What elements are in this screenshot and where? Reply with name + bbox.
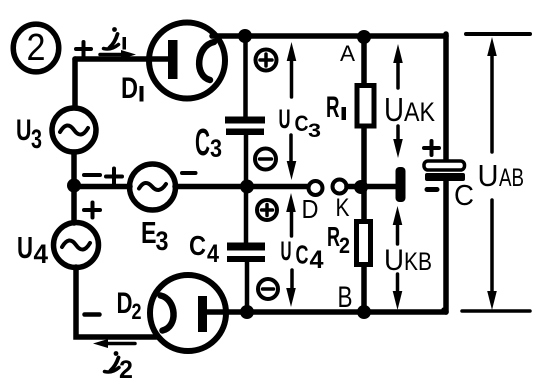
wire E3 to node D	[175, 184, 308, 190]
polarity minus right of E3	[182, 171, 196, 175]
svg-text:R: R	[326, 91, 340, 124]
source U4	[54, 223, 99, 268]
polarity plus above U4	[84, 203, 100, 218]
junction dot top of C3 branch	[238, 29, 252, 43]
resistor R2	[357, 222, 371, 265]
node A junction dot	[357, 30, 371, 44]
wire C4 branch lower	[245, 261, 250, 312]
wire C3 to mid junction to C4	[244, 135, 249, 243]
svg-text:U: U	[16, 114, 32, 147]
svg-text:C: C	[454, 180, 474, 212]
svg-text:C: C	[189, 230, 206, 261]
svg-text:U: U	[281, 236, 292, 266]
svg-text:U: U	[17, 230, 33, 265]
polarity circle minus below C4	[258, 279, 278, 299]
svg-text:B: B	[338, 281, 353, 314]
svg-text:2: 2	[119, 356, 133, 384]
label U4	[17, 230, 48, 269]
label UC4	[281, 236, 324, 274]
junction dot bottom of C branch	[240, 305, 254, 319]
wire R2 to node B	[361, 267, 367, 312]
capacitor C4	[227, 243, 265, 263]
wire input corner down to U3	[72, 59, 78, 107]
source U3	[52, 108, 96, 152]
label R1	[326, 91, 346, 124]
UAB top delimiter	[466, 32, 530, 36]
label D2	[117, 287, 142, 324]
node K open circle	[333, 180, 347, 194]
svg-text:4: 4	[207, 240, 219, 268]
wire input corner to D1 cathode	[75, 56, 168, 62]
bottom wire D2 to bottom-right corner	[205, 309, 446, 315]
minus sign at capacitor C	[427, 187, 437, 192]
node D open circle	[309, 181, 323, 195]
svg-text:AB: AB	[499, 164, 524, 192]
svg-text:4: 4	[34, 239, 49, 269]
wire C3 branch upper	[243, 36, 248, 117]
UAB bottom delimiter	[462, 309, 530, 313]
svg-text:3: 3	[156, 226, 169, 256]
top wire D1 to top-right corner	[212, 33, 446, 39]
svg-text:2: 2	[132, 299, 142, 324]
junction left mid	[67, 179, 81, 193]
label UAK	[384, 91, 435, 128]
node B junction dot	[357, 305, 371, 319]
label C4	[189, 230, 219, 268]
voltage arrow UC4	[286, 193, 296, 307]
label i1	[104, 27, 127, 49]
tube diode D1	[149, 23, 225, 99]
tube diode D2	[150, 275, 226, 351]
svg-text:C: C	[296, 242, 309, 270]
right branch wire lower	[444, 181, 446, 312]
svg-text:3: 3	[210, 135, 222, 163]
right branch wire upper	[443, 34, 449, 161]
svg-text:AK: AK	[404, 97, 435, 127]
svg-text:C: C	[295, 111, 309, 136]
svg-text:D: D	[121, 72, 138, 105]
resistor R1	[357, 86, 374, 127]
wire U4 down and right to D2	[76, 267, 156, 337]
polarity circle minus below C3	[255, 149, 276, 170]
label D1	[121, 72, 144, 105]
svg-text:2: 2	[27, 27, 46, 69]
wire junction down to U4	[71, 186, 77, 223]
polarity minus below U4	[85, 312, 100, 317]
node marker 2 (circled figure number)	[13, 24, 59, 72]
wire R1 to R2	[361, 128, 367, 219]
plus sign at top-left input	[76, 42, 91, 57]
label E3	[141, 215, 169, 256]
svg-text:U: U	[279, 104, 291, 134]
svg-text:2: 2	[339, 233, 350, 258]
svg-text:U: U	[384, 244, 404, 277]
wire node A to R1	[361, 36, 367, 83]
label UC3	[279, 104, 322, 142]
svg-text:D: D	[302, 194, 319, 224]
svg-text:KB: KB	[404, 248, 432, 276]
svg-text:A: A	[340, 41, 355, 66]
label C3	[195, 122, 222, 164]
svg-text:U: U	[478, 158, 499, 193]
plus sign at capacitor C	[424, 141, 439, 155]
polarity circle plus above C4	[257, 200, 277, 220]
svg-text:U: U	[384, 91, 404, 128]
svg-text:4: 4	[310, 246, 324, 274]
polarity minus left of E3	[84, 173, 100, 177]
svg-text:D: D	[117, 287, 133, 320]
capacitor C electrolytic	[424, 161, 465, 181]
polarity plus left of E3	[106, 169, 122, 185]
wire U3 to left mid junction	[71, 152, 77, 186]
svg-text:K: K	[336, 194, 350, 222]
voltage arrow UKB	[393, 206, 403, 310]
svg-text:E: E	[141, 215, 157, 250]
wire node K to middle junction and K bar	[347, 184, 397, 190]
current arrow i2	[93, 339, 135, 348]
label R2	[327, 221, 350, 258]
voltage arrow UAB	[487, 37, 497, 310]
label UAB	[478, 158, 525, 193]
wire junction to E3	[74, 184, 130, 190]
junction dot middle of C branch	[240, 180, 254, 194]
junction dot middle (R branch)	[354, 180, 368, 194]
voltage arrow UAK	[393, 44, 403, 158]
label U3	[16, 114, 42, 154]
svg-text:3: 3	[31, 124, 42, 154]
label i2	[105, 351, 133, 384]
source E3	[130, 164, 176, 210]
current arrow i1	[100, 50, 136, 59]
label UKB	[384, 244, 432, 277]
voltage arrow UC3	[287, 42, 297, 180]
polarity circle plus top (C3)	[256, 50, 277, 71]
svg-text:3: 3	[308, 121, 321, 142]
svg-text:C: C	[195, 122, 210, 164]
electrode bar at K potential	[396, 167, 406, 202]
capacitor C3	[225, 117, 265, 136]
